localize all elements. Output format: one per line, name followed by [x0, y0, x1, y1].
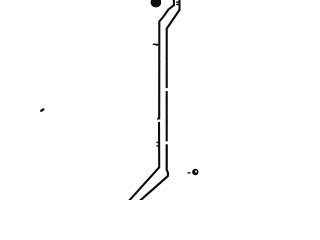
pipe right line: between gaps [166, 91, 168, 141]
pipe right line: top vertical, diagonal, vertical to first gap [167, 0, 180, 88]
break tick upper on top-right line [176, 1, 179, 3]
dash left of ring mark [188, 172, 191, 174]
pipe left line: flare at break [158, 117, 160, 119]
ring mark: solid blob [192, 169, 198, 175]
ring mark: white hole [195, 171, 197, 173]
nub pair left of left line y=146 [156, 145, 158, 147]
pipe left line: lower vertical and bottom diagonal [129, 122, 159, 201]
pipe left line: top vertical, diagonal, long vertical upper part [159, 0, 174, 119]
break tick lower on top-right line [176, 3, 179, 5]
comma mark at left [41, 109, 43, 110]
pipe right line: lower vertical, outer elbow curve, bottom diagonal [140, 144, 168, 201]
thick end of long tick [156, 44, 159, 46]
filled dot at top [151, 0, 162, 8]
nub pair left of left line y=142 [156, 141, 158, 143]
long tick mark on left line y=44 [153, 43, 158, 45]
small nub right of left line y=61.5 [159, 61, 160, 63]
